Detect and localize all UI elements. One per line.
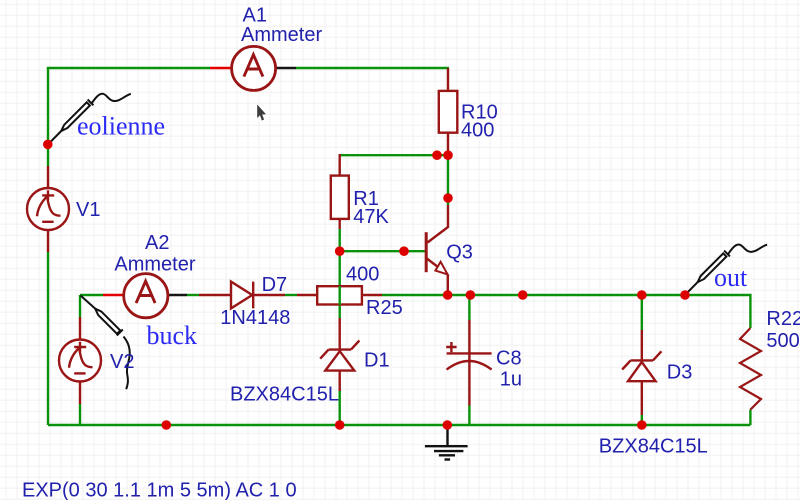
- svg-text:A2: A2: [145, 232, 169, 254]
- svg-text:D7: D7: [262, 274, 288, 296]
- wire A2 right black segment: [167, 294, 187, 296]
- svg-text:out: out: [714, 263, 748, 292]
- wire C8 bottom green: [468, 406, 470, 426]
- wire R1 bottom to base wire green: [339, 229, 341, 251]
- pin V1 bottom: [47, 230, 49, 252]
- pin D3 top: [641, 330, 643, 360]
- wire D3 branch top green: [641, 295, 643, 330]
- wire D1 branch green through R25: [339, 251, 341, 318]
- svg-text:Ammeter: Ammeter: [114, 254, 195, 276]
- resistor R10: [439, 91, 458, 133]
- wire mid rail green short: [187, 294, 199, 296]
- pin V2 bottom: [79, 381, 81, 404]
- wire top rail green right to R10 corner: [296, 67, 449, 69]
- svg-text:buck: buck: [147, 321, 198, 350]
- wire V2 branch bottom green: [79, 404, 81, 425]
- wire R1 top rail green: [340, 154, 448, 156]
- svg-text:R25: R25: [366, 297, 403, 319]
- resistor R22 (zigzag): [740, 328, 761, 410]
- pin R10 bottom: [447, 133, 449, 155]
- wire R22 bottom green: [749, 410, 751, 425]
- junction node eolienne: [43, 140, 53, 150]
- svg-text:1u: 1u: [500, 369, 522, 391]
- wire Q3 base horizontal green: [340, 250, 425, 252]
- wire D1 to bottom rail green: [339, 391, 341, 425]
- svg-text:BZX84C15L: BZX84C15L: [599, 435, 708, 457]
- svg-text:D3: D3: [667, 362, 693, 384]
- junction node base wire left: [335, 246, 345, 256]
- pin C8 top: [468, 320, 470, 353]
- zener diode D1: [320, 341, 359, 371]
- pin R1 bottom: [339, 219, 341, 229]
- pin R25 right: [361, 294, 382, 296]
- pin Q3 collector: [428, 205, 449, 243]
- capacitor C8: [446, 342, 491, 370]
- resistor R25: [317, 286, 362, 304]
- junction node emitter rail: [443, 290, 453, 300]
- pin D1 bottom: [339, 371, 341, 391]
- voltage source V1: [27, 188, 69, 230]
- wire left vertical green lower: [47, 252, 49, 425]
- resistor R1: [331, 176, 349, 219]
- junction node R1-R10 b: [443, 150, 453, 160]
- pin D1 top: [339, 318, 341, 350]
- svg-text:Ammeter: Ammeter: [241, 24, 322, 46]
- pin V1 top: [47, 166, 49, 188]
- mouse cursor: [257, 105, 266, 121]
- wire A1 right black segment: [275, 67, 296, 69]
- pin R10 top: [447, 68, 449, 91]
- transistor Q3: [426, 232, 448, 274]
- svg-text:500: 500: [766, 330, 799, 352]
- diode D7: [231, 282, 253, 309]
- svg-text:1N4148: 1N4148: [220, 307, 290, 329]
- svg-text:R22: R22: [766, 308, 800, 330]
- wire V2 branch top green: [79, 295, 81, 317]
- probe eolienne: [48, 94, 131, 145]
- pin D7 cathode: [253, 294, 285, 296]
- wire top rail red segment (A1 left terminal): [210, 67, 232, 69]
- junction node out: [680, 290, 690, 300]
- junction node R1-R10 a: [432, 150, 442, 160]
- junction node bottom D3: [637, 420, 647, 430]
- svg-text:400: 400: [461, 120, 494, 142]
- wire C8 branch top green: [468, 295, 470, 320]
- wire left vertical green upper: [47, 68, 49, 166]
- pin C8 bottom: [468, 354, 470, 406]
- svg-text:47K: 47K: [353, 206, 389, 228]
- junction node mid rail: [518, 290, 528, 300]
- ammeter A2: [124, 274, 168, 318]
- junction node collector wire: [443, 193, 453, 203]
- junction node bottom 1: [162, 420, 172, 430]
- svg-text:V1: V1: [76, 199, 100, 221]
- ground: [425, 425, 468, 460]
- junction node bottom D1: [335, 420, 345, 430]
- wire bottom rail: [48, 424, 750, 426]
- wire green crossing R25: [339, 286, 341, 305]
- pin V2 top: [79, 317, 81, 340]
- svg-text:V2: V2: [110, 351, 134, 373]
- wire mid rail red segment (A2 left terminal): [103, 294, 125, 296]
- wire mid rail green short 2: [285, 294, 297, 296]
- ammeter A1: [232, 46, 276, 90]
- wire mid rail green at corner: [80, 294, 103, 296]
- wire D3 bottom green: [641, 415, 643, 425]
- wire R10 bottom to collector node green: [447, 155, 449, 205]
- svg-text:eolienne: eolienne: [77, 112, 165, 141]
- svg-text:400: 400: [346, 264, 379, 286]
- probe out: [685, 245, 767, 295]
- voltage source V2: [59, 340, 101, 382]
- svg-text:D1: D1: [364, 350, 390, 372]
- junction node C8 rail: [466, 290, 476, 300]
- wire R25 to Q3 emitter node green: [382, 294, 448, 296]
- junction node base wire mid: [399, 246, 409, 256]
- svg-text:EXP(0 30 1.1 1m 5 5m) AC 1 0: EXP(0 30 1.1 1m 5 5m) AC 1 0: [22, 480, 297, 500]
- svg-text:C8: C8: [496, 348, 522, 370]
- pin R1 top: [339, 154, 341, 176]
- zener diode D3: [622, 351, 661, 381]
- junction node bottom ground: [443, 420, 453, 430]
- pin D7 anode: [199, 294, 231, 296]
- probe buck: [81, 296, 130, 390]
- pin Q3 emitter vertical: [447, 275, 449, 295]
- pin R25 left: [297, 294, 317, 296]
- wire top rail green left: [48, 68, 210, 69]
- wire mid rail green right: [448, 295, 750, 328]
- svg-text:Q3: Q3: [446, 242, 473, 264]
- pin D3 bottom: [641, 381, 643, 415]
- junction node D3 top: [637, 290, 647, 300]
- svg-text:BZX84C15L: BZX84C15L: [230, 384, 339, 406]
